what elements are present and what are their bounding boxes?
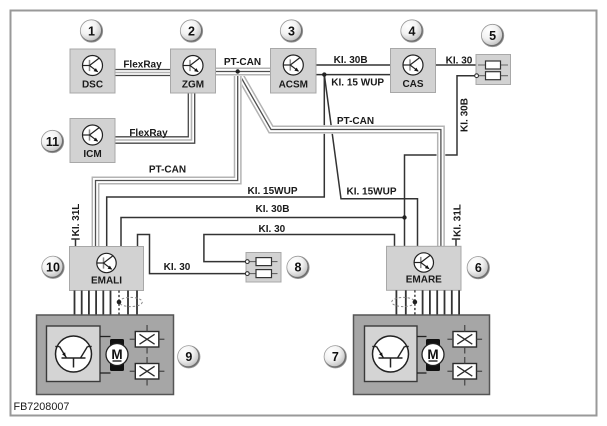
svg-text:ZGM: ZGM [182, 80, 204, 91]
svg-text:1: 1 [88, 24, 95, 38]
svg-text:FB7208007: FB7208007 [14, 401, 70, 413]
svg-text:KI. 31L: KI. 31L [453, 204, 464, 237]
svg-text:FlexRay: FlexRay [129, 128, 168, 139]
svg-text:PT-CAN: PT-CAN [337, 116, 374, 127]
svg-text:ICM: ICM [83, 149, 101, 160]
svg-text:KI. 15 WUP: KI. 15 WUP [331, 77, 384, 88]
svg-text:KI. 15WUP: KI. 15WUP [346, 187, 396, 198]
svg-text:KI. 15WUP: KI. 15WUP [247, 186, 297, 197]
svg-text:KI. 30B: KI. 30B [334, 55, 368, 66]
svg-text:KI. 30: KI. 30 [164, 262, 191, 273]
svg-text:8: 8 [295, 261, 302, 275]
svg-text:PT-CAN: PT-CAN [149, 165, 186, 176]
svg-text:KI. 31L: KI. 31L [71, 204, 82, 237]
svg-text:KI. 30: KI. 30 [446, 56, 473, 67]
svg-text:EMALI: EMALI [91, 276, 122, 287]
svg-text:11: 11 [46, 135, 59, 149]
svg-text:DSC: DSC [82, 80, 103, 91]
svg-text:5: 5 [489, 29, 496, 43]
svg-text:M: M [111, 347, 122, 362]
svg-text:KI. 30B: KI. 30B [256, 204, 290, 215]
svg-text:10: 10 [46, 261, 60, 275]
svg-text:PT-CAN: PT-CAN [224, 57, 261, 68]
svg-text:7: 7 [332, 350, 339, 364]
svg-text:ACSM: ACSM [279, 80, 308, 91]
svg-text:9: 9 [185, 350, 192, 364]
svg-text:3: 3 [288, 24, 295, 38]
svg-text:4: 4 [409, 24, 416, 38]
svg-text:KI. 30: KI. 30 [259, 224, 286, 235]
svg-text:KI. 30B: KI. 30B [460, 98, 471, 132]
svg-text:M: M [427, 347, 438, 362]
svg-text:EMARE: EMARE [406, 275, 442, 286]
svg-text:FlexRay: FlexRay [123, 60, 162, 71]
svg-text:CAS: CAS [402, 79, 423, 90]
svg-text:2: 2 [188, 24, 195, 38]
svg-text:6: 6 [475, 261, 482, 275]
